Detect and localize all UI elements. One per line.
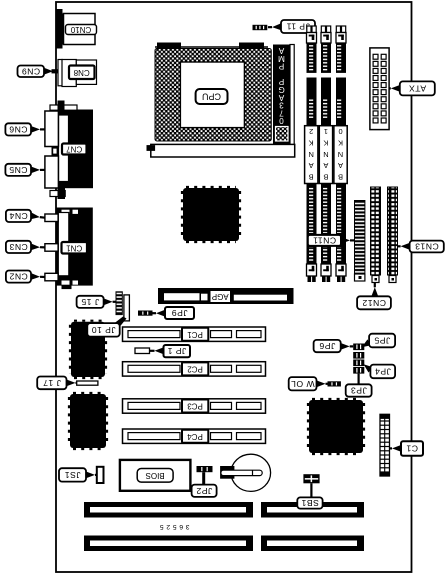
pointer CN6 — [31, 126, 40, 133]
svg-text:A: A — [278, 93, 284, 102]
header CN12 — [371, 187, 381, 283]
svg-text:K: K — [323, 138, 328, 147]
callout JP1 — [164, 345, 191, 357]
callout CN4 — [6, 210, 31, 222]
jumper block row 3 — [353, 360, 364, 367]
pointer CN11 — [341, 237, 350, 244]
pointer ATX — [391, 85, 400, 92]
svg-text:CN9: CN9 — [21, 66, 40, 76]
slot PC4 — [123, 429, 266, 443]
svg-text:2: 2 — [309, 127, 313, 136]
pointer CN4 — [31, 213, 40, 220]
callout J15 — [77, 296, 104, 308]
header C1 — [380, 414, 390, 476]
callout JP11 — [281, 20, 315, 33]
svg-text:CN3: CN3 — [9, 242, 28, 252]
socket top bar — [155, 43, 268, 49]
svg-text:JP 10: JP 10 — [91, 325, 115, 335]
CN3 port — [45, 244, 58, 252]
svg-text:CN1: CN1 — [66, 243, 83, 252]
connector CN10 box — [64, 14, 96, 45]
svg-text:CN11: CN11 — [313, 235, 336, 245]
label BANK 2 — [305, 126, 318, 184]
port JS1 — [97, 467, 104, 483]
svg-text:JP6: JP6 — [319, 341, 335, 351]
callout JP5 — [369, 334, 395, 348]
latch between ports — [52, 147, 59, 156]
svg-text:CN7: CN7 — [66, 145, 83, 154]
D-sub CN6 port — [45, 111, 59, 147]
pointer JP6 — [341, 343, 350, 350]
svg-text:3 6 5 2 5: 3 6 5 2 5 — [159, 523, 189, 530]
slot PC1 — [123, 327, 266, 341]
connector CN10 block — [57, 9, 67, 49]
chip BIOS — [120, 460, 190, 491]
svg-text:A: A — [323, 161, 328, 170]
jumper SB1 — [303, 474, 319, 483]
callout JP3 — [346, 384, 372, 396]
label PC1 — [182, 328, 208, 341]
jumper JP9 pins — [138, 311, 153, 316]
svg-text:ATX: ATX — [409, 83, 427, 93]
callout ATX — [400, 81, 435, 95]
jumper WOL pins — [328, 381, 341, 386]
pointer CN5 — [31, 167, 40, 174]
label PC2 — [182, 362, 208, 375]
svg-text:A: A — [338, 161, 343, 170]
svg-text:JP4: JP4 — [375, 366, 391, 376]
callout JP4 — [370, 365, 395, 379]
slot AGP — [158, 288, 294, 304]
battery — [220, 454, 271, 491]
slot ISA1 left — [84, 502, 253, 518]
label BIOS — [137, 469, 173, 483]
svg-text:J 15: J 15 — [81, 297, 99, 307]
slot ISA1 right — [261, 502, 364, 518]
pointer JP1 — [155, 347, 164, 354]
callout CN6 — [5, 123, 31, 135]
svg-text:PC1: PC1 — [187, 330, 203, 339]
DIMM slot BANK 1 — [321, 26, 331, 282]
label PC4 — [182, 430, 208, 443]
callout J17 — [37, 377, 66, 390]
label CN10 — [66, 25, 97, 35]
svg-text:CN6: CN6 — [9, 124, 28, 134]
callout SB1 — [297, 497, 322, 508]
callout C1 — [401, 441, 423, 455]
svg-text:N: N — [323, 150, 328, 159]
svg-text:0: 0 — [338, 127, 342, 136]
label PC3 — [182, 400, 208, 413]
socket inner — [180, 62, 244, 128]
slot PC3 — [123, 399, 266, 413]
label BANK 1 — [319, 126, 332, 184]
callout JP10 — [87, 323, 119, 337]
svg-text:PC4: PC4 — [187, 432, 203, 441]
svg-text:K: K — [309, 138, 314, 147]
pointer CN2 — [31, 273, 40, 280]
callout CN5 — [5, 164, 31, 176]
socket bottom bar — [147, 144, 295, 157]
header CN11 — [355, 201, 365, 282]
AMP PGA370 strip — [273, 45, 290, 146]
connector CN7 body — [57, 110, 94, 189]
svg-text:PC3: PC3 — [187, 402, 203, 411]
jumper block row 4 — [353, 367, 364, 374]
pointer CN13 — [401, 243, 410, 250]
jumper JP2 — [197, 466, 213, 485]
svg-text:7: 7 — [279, 108, 284, 117]
svg-text:A: A — [309, 161, 314, 170]
svg-text:SB1: SB1 — [301, 498, 319, 508]
svg-text:0: 0 — [279, 116, 284, 125]
svg-text:G: G — [278, 85, 284, 94]
connector CN8 — [58, 60, 97, 87]
label CPU — [196, 89, 228, 104]
callout CN9 — [18, 66, 45, 78]
svg-text:3: 3 — [279, 101, 284, 110]
svg-text:JP 1: JP 1 — [167, 346, 186, 356]
label CN1 — [62, 242, 88, 254]
svg-text:N: N — [338, 150, 343, 159]
DIMM slot BANK 0 — [336, 26, 346, 282]
slot PC2 — [123, 362, 266, 376]
svg-text:AGP: AGP — [212, 292, 229, 301]
svg-text:B: B — [309, 173, 314, 182]
svg-text:CN2: CN2 — [9, 272, 28, 282]
jumper block row 2 — [353, 352, 364, 359]
callout CN13 — [410, 241, 444, 253]
CN4 port — [45, 214, 58, 222]
header J15 — [116, 292, 122, 315]
svg-text:JP9: JP9 — [171, 308, 187, 318]
pointer CN9 — [44, 68, 58, 75]
callout JP6 — [314, 340, 341, 352]
chip south bridge — [308, 399, 364, 454]
jumper block row 1 — [353, 344, 364, 351]
slot ISA2 left — [84, 536, 253, 552]
callout JP2 — [192, 485, 217, 497]
svg-text:JS1: JS1 — [64, 470, 80, 480]
CN2 port — [45, 273, 58, 281]
svg-text:W OL: W OL — [291, 379, 315, 389]
callout JP5 — [362, 339, 371, 347]
pointer JP9 — [156, 310, 165, 317]
svg-text:P: P — [278, 77, 284, 86]
svg-text:CN5: CN5 — [9, 165, 28, 175]
jumper JP10 rect — [124, 295, 129, 321]
svg-text:CN13: CN13 — [415, 242, 439, 252]
callout JP9 — [165, 307, 194, 319]
svg-text:M: M — [278, 54, 285, 63]
chip IO 2 — [69, 393, 107, 449]
pointer J17 — [67, 380, 76, 387]
svg-text:CN4: CN4 — [9, 211, 28, 221]
svg-text:J 17: J 17 — [43, 378, 61, 388]
SB1 stem — [310, 483, 312, 497]
callout WOL — [289, 377, 317, 390]
pointer CN12 — [371, 287, 378, 296]
svg-text:JP2: JP2 — [196, 486, 212, 496]
label CN7 — [62, 144, 87, 155]
svg-text:CN10: CN10 — [70, 25, 91, 34]
pointer WOL — [317, 380, 326, 387]
label AGP — [210, 290, 232, 303]
svg-text:1: 1 — [324, 127, 328, 136]
svg-text:JP3: JP3 — [350, 386, 366, 396]
svg-text:JP5: JP5 — [374, 336, 390, 346]
pointer JP4 — [364, 364, 373, 372]
DIMM slot BANK 2 — [307, 26, 317, 282]
svg-text:CN12: CN12 — [362, 298, 386, 308]
callout CN12 — [357, 296, 391, 309]
callout CN11 — [308, 235, 341, 246]
pointer J15 — [104, 298, 113, 305]
pointer JP11 — [272, 23, 281, 30]
pointer JS1 — [86, 472, 95, 479]
svg-text:C1: C1 — [406, 444, 418, 454]
pointer C1 — [392, 445, 401, 452]
svg-text:B: B — [338, 173, 343, 182]
CPU socket PGA370 — [155, 49, 271, 142]
connector ATX power — [370, 48, 389, 130]
svg-text:PC2: PC2 — [187, 365, 203, 374]
callout CN2 — [6, 271, 31, 283]
label BANK 0 — [334, 126, 347, 184]
connector CN1 body — [57, 208, 93, 290]
svg-text:A: A — [278, 46, 284, 55]
board outline — [56, 2, 412, 572]
svg-text:P: P — [278, 62, 284, 71]
svg-text:K: K — [338, 138, 343, 147]
jumper J17 bar — [77, 381, 98, 385]
pointer CN3 — [31, 244, 40, 251]
callout CN3 — [6, 241, 31, 253]
svg-text:CPU: CPU — [202, 92, 221, 102]
callout JS1 — [59, 468, 86, 481]
svg-text:N: N — [309, 150, 314, 159]
svg-text:BIOS: BIOS — [146, 471, 165, 480]
jumper JP11 pins — [253, 25, 268, 30]
chip IO 1 — [70, 321, 106, 378]
top bracket — [50, 101, 77, 111]
slot ISA2 right — [261, 536, 364, 552]
svg-text:CN8: CN8 — [73, 68, 90, 77]
bottom bracket — [50, 188, 65, 199]
svg-text:B: B — [323, 173, 328, 182]
strip right column — [290, 45, 294, 146]
pointer JP10 — [112, 317, 127, 331]
chip north bridge — [182, 187, 240, 242]
JP3 stem — [358, 374, 360, 385]
label CN8 — [69, 66, 95, 80]
D-sub CN5 port — [45, 156, 59, 188]
header CN13 — [388, 187, 398, 283]
jumper JP1 rect — [135, 348, 150, 354]
